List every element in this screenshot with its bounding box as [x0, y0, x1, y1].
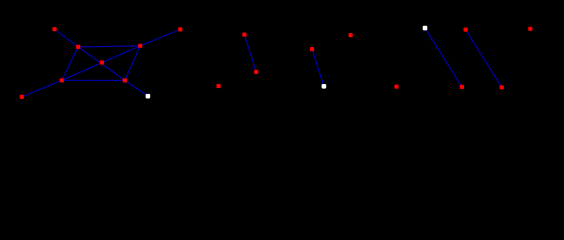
wire edge C-E-G diagonal — [78, 47, 125, 81]
node fig3 isolated — [349, 33, 353, 37]
wire edge D-E-F diagonal — [62, 46, 140, 81]
wire edge fig2 — [244, 35, 256, 72]
node fig5 bottom — [500, 85, 504, 89]
node fig3 left — [310, 47, 314, 51]
node C — [76, 45, 80, 49]
wire edge D-B — [140, 29, 180, 45]
node D — [138, 44, 142, 48]
node fig4 isolated — [394, 85, 398, 89]
node F — [60, 78, 64, 82]
wire edge A-C — [55, 29, 79, 47]
wire edge F-H — [22, 80, 62, 97]
wire edge fig5 — [466, 30, 502, 88]
node G — [123, 78, 127, 82]
node B — [178, 27, 182, 31]
node fig5 isolated — [528, 27, 532, 31]
node E — [100, 60, 104, 64]
wire edge F-G — [62, 79, 125, 81]
node I white — [146, 94, 151, 99]
wire edge fig3 — [312, 49, 324, 86]
node A — [52, 27, 56, 31]
node fig2 isolated — [216, 84, 220, 88]
node fig2 bottom — [254, 70, 258, 74]
wire edge C-D — [78, 46, 140, 47]
node fig3 white — [322, 84, 327, 89]
wire edge G-I — [125, 80, 148, 96]
wire edge C-F — [62, 47, 78, 80]
node fig4 white — [423, 26, 428, 31]
wire edge D-G — [125, 46, 140, 81]
wire edge fig4 — [425, 28, 462, 87]
node fig2 top — [242, 33, 246, 37]
node H — [20, 95, 24, 99]
node fig4 bottom — [460, 85, 464, 89]
node fig5 top — [464, 28, 468, 32]
